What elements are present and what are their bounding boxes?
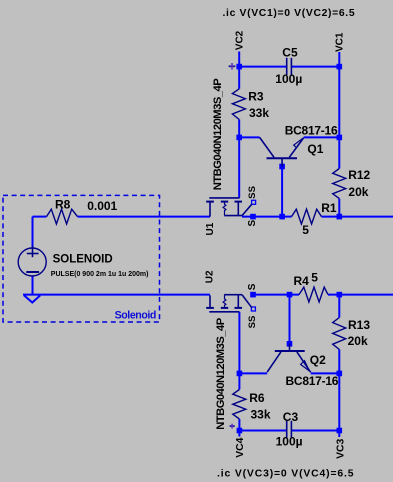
svg-text:20k: 20k <box>348 334 368 348</box>
svg-text:R12: R12 <box>348 168 370 182</box>
svg-text:R3: R3 <box>248 90 264 104</box>
svg-text:VC3: VC3 <box>335 438 346 458</box>
svg-text:NTBG040N120M3S_4P: NTBG040N120M3S_4P <box>215 317 227 430</box>
svg-text:U1: U1 <box>205 222 216 235</box>
svg-text:R1: R1 <box>321 201 337 215</box>
svg-text:.ic V(VC1)=0 V(VC2)=6.5: .ic V(VC1)=0 V(VC2)=6.5 <box>223 8 356 19</box>
svg-text:R8: R8 <box>55 198 71 212</box>
svg-text:SS: SS <box>247 315 258 328</box>
svg-text:5: 5 <box>302 223 309 237</box>
svg-text:VC1: VC1 <box>335 32 346 52</box>
svg-text:U2: U2 <box>205 270 216 283</box>
svg-text:S: S <box>247 220 258 227</box>
svg-text:NTBG040N120M3S_4P: NTBG040N120M3S_4P <box>212 78 224 191</box>
svg-text:S: S <box>247 283 258 290</box>
svg-text:5: 5 <box>311 271 318 285</box>
svg-text:.ic V(VC3)=0 V(VC4)=6.5: .ic V(VC3)=0 V(VC4)=6.5 <box>217 469 354 480</box>
svg-text:20k: 20k <box>348 185 368 199</box>
svg-text:BC817-16: BC817-16 <box>286 374 339 388</box>
svg-text:PULSE(0 900 2m 1u 1u 200m): PULSE(0 900 2m 1u 1u 200m) <box>51 271 149 278</box>
svg-text:Q2: Q2 <box>310 353 326 367</box>
svg-text:100µ: 100µ <box>275 72 302 86</box>
svg-text:R13: R13 <box>348 318 370 332</box>
svg-text:SOLENOID: SOLENOID <box>53 253 113 265</box>
svg-text:Solenoid: Solenoid <box>115 310 156 322</box>
svg-text:Q1: Q1 <box>307 142 323 156</box>
svg-text:33k: 33k <box>249 106 269 120</box>
svg-text:C3: C3 <box>283 410 299 424</box>
svg-text:VC2: VC2 <box>234 30 245 50</box>
svg-text:C5: C5 <box>282 46 298 60</box>
svg-text:SS: SS <box>247 185 258 198</box>
svg-text:BC817-16: BC817-16 <box>285 123 338 137</box>
svg-text:R6: R6 <box>249 391 265 405</box>
svg-text:33k: 33k <box>251 408 271 422</box>
svg-text:VC4: VC4 <box>235 437 246 457</box>
svg-text:R4: R4 <box>294 274 310 288</box>
svg-text:100µ: 100µ <box>276 434 303 448</box>
svg-text:0.001: 0.001 <box>87 199 117 213</box>
